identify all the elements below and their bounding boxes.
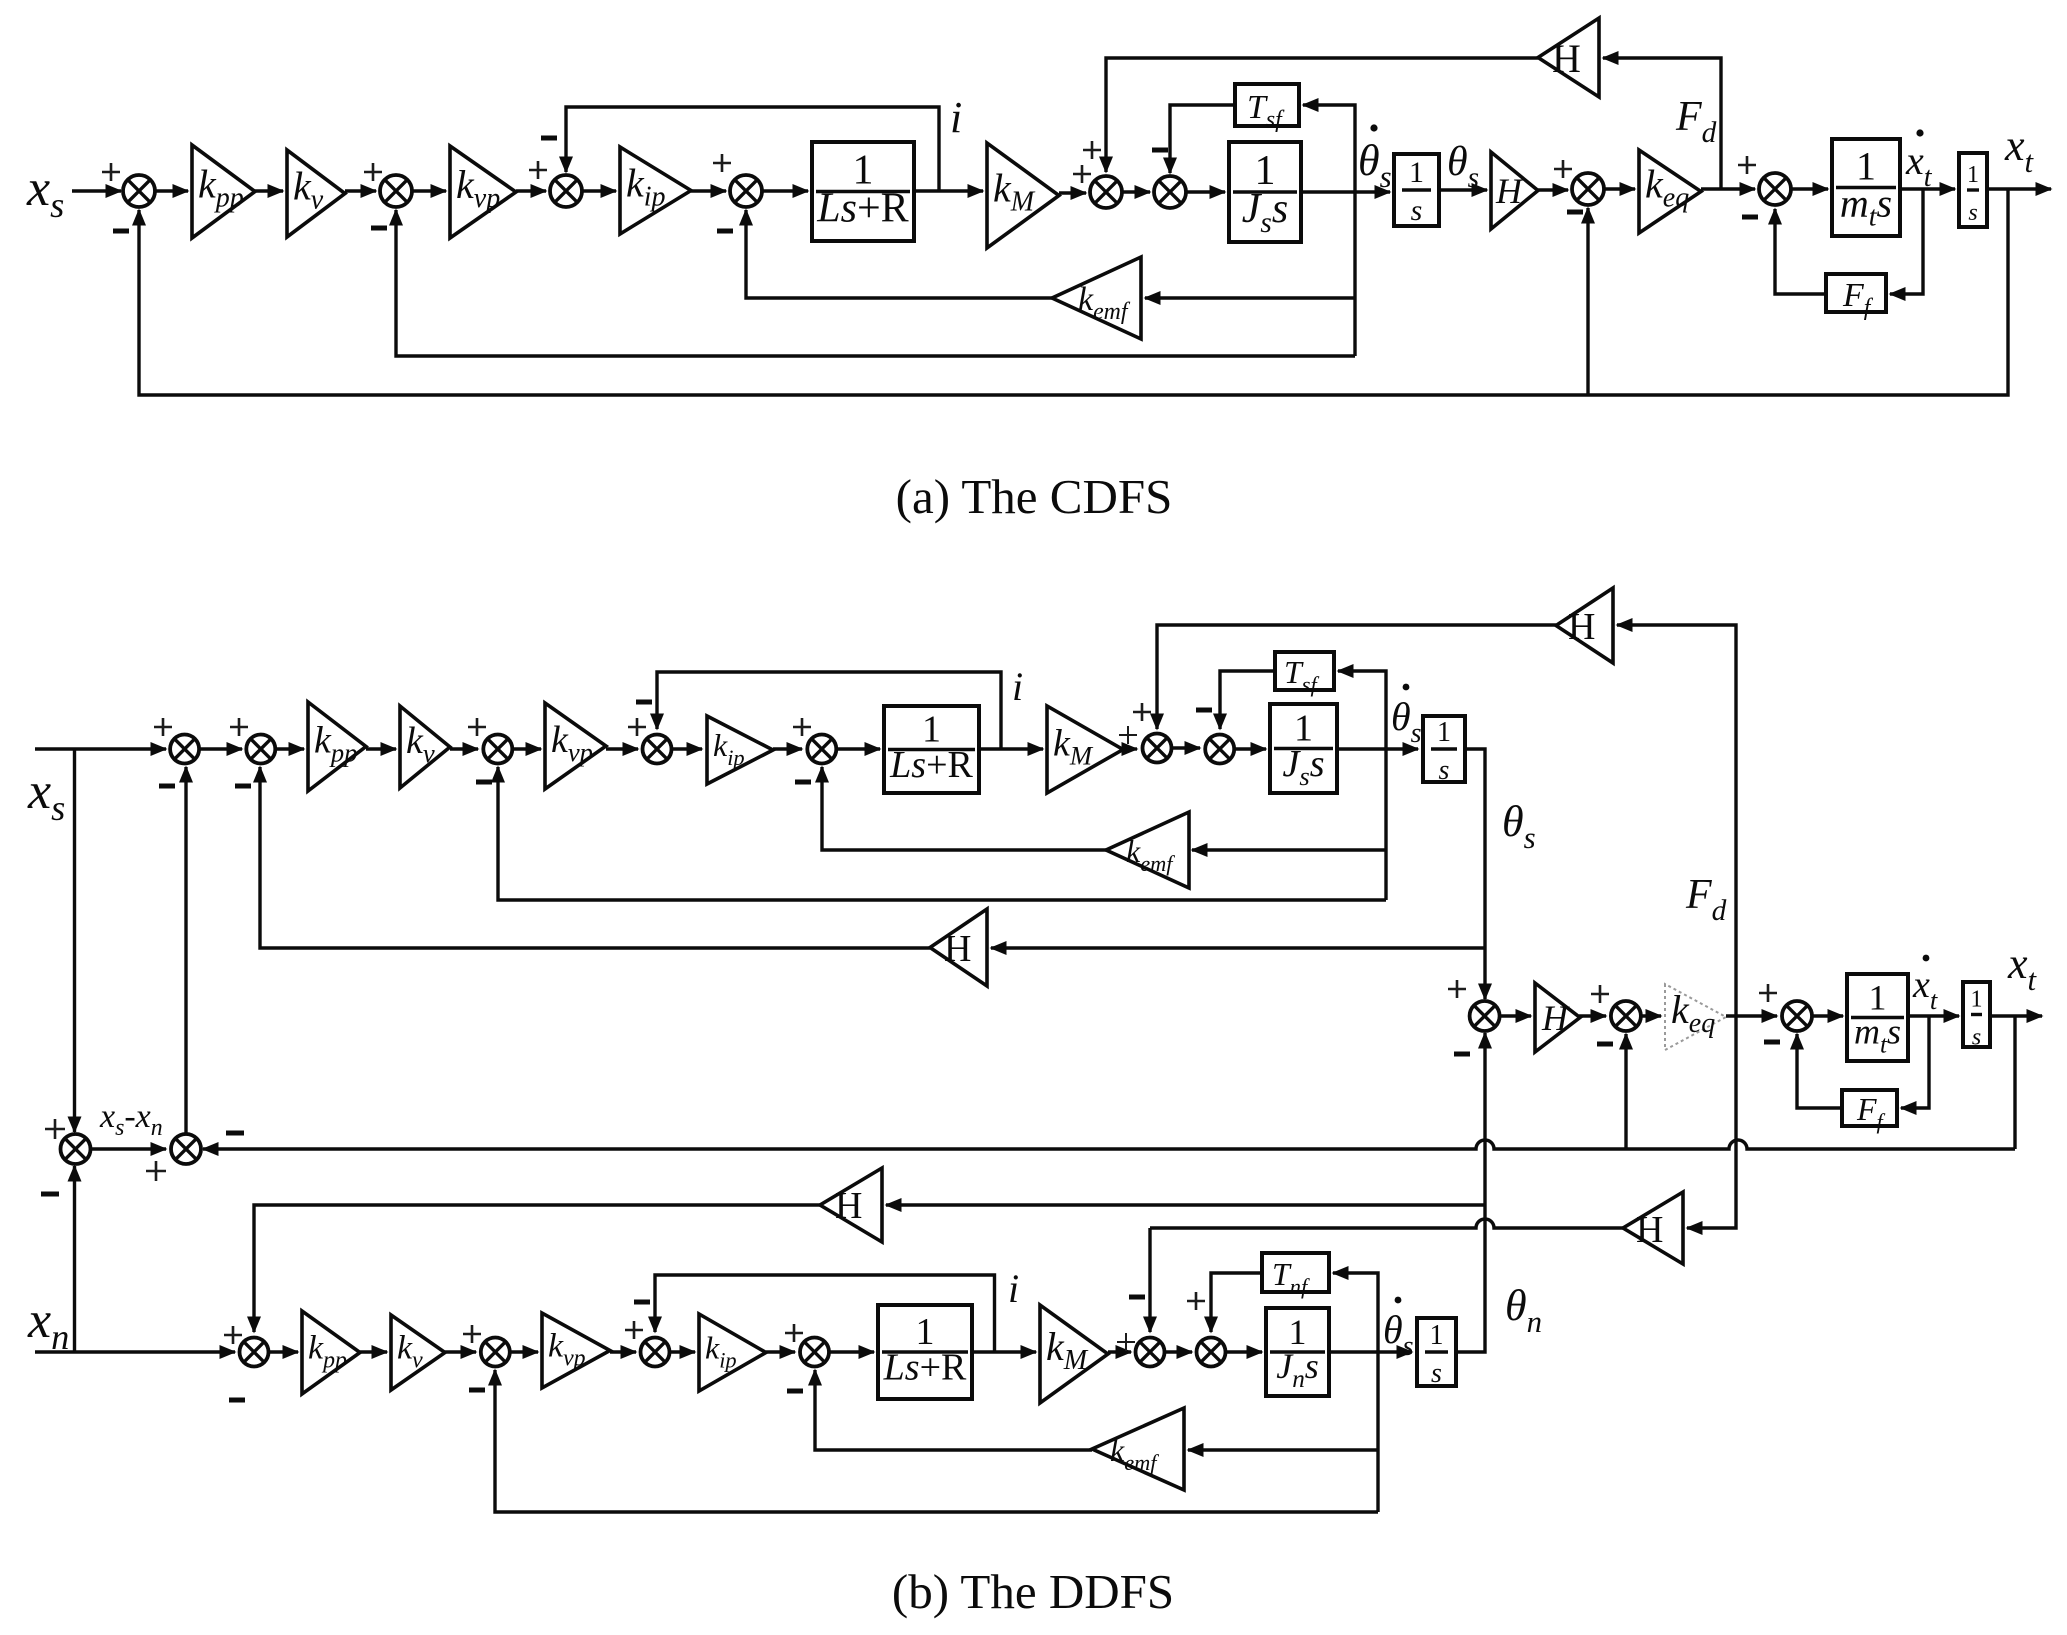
wire LsR to kM (b) (979, 742, 1045, 756)
wire Ff out to C3 (b) (1790, 1033, 1842, 1109)
plus at C1 (1448, 980, 1466, 998)
wire x_s input (b) (35, 742, 168, 756)
minus at C1 (1454, 1052, 1470, 1057)
svg-text:H: H (1552, 36, 1581, 81)
gain H mid (b s-chain) (930, 909, 987, 986)
plus at B6 (793, 718, 811, 736)
plus at A5 left (1073, 165, 1091, 183)
wire kpp to kv (255, 184, 285, 198)
wire kip to BN6 (766, 1345, 797, 1359)
gain kv (a) (287, 150, 345, 237)
wire Fd vertical (b) (1616, 618, 1737, 1016)
svg-text:1: 1 (1967, 162, 1979, 188)
minus at A2 (371, 226, 387, 231)
svg-text:Ls+R: Ls+R (889, 744, 973, 786)
svg-text:xt: xt (2007, 939, 2038, 997)
wire output (a) (1987, 182, 2053, 196)
svg-text:xt: xt (1905, 138, 1933, 193)
wire kemf feed (n) (1187, 1443, 1379, 1457)
block 1/s (a) (1394, 154, 1439, 227)
wire BN4 to kip (n) (670, 1345, 697, 1359)
wire kemf out to BN6 (808, 1369, 1092, 1451)
wire keq to sum A8 (1701, 182, 1757, 196)
plus at L1 (45, 1119, 65, 1139)
minus at BN7 top (1129, 1295, 1145, 1300)
wire kM to B7 (1122, 742, 1139, 756)
gain H coupling (b) (1535, 983, 1580, 1052)
wire xt branch up to C2 (b) (1619, 1033, 1633, 1150)
minus at A7 (1567, 210, 1583, 215)
wire Tsf out to B8 (1213, 671, 1275, 731)
wire kvp to BN4 (610, 1345, 638, 1359)
wire C2 to keq (b) (1641, 1009, 1663, 1023)
block Tsf (a) (1235, 84, 1299, 133)
wire theta feedback to A2 (a) (389, 209, 1355, 357)
gain kvp (b n-chain) (542, 1313, 610, 1388)
summing junction C3 (1782, 1001, 1812, 1031)
gain H mid (a) (1491, 152, 1538, 229)
wire A5 to sum A6 (1122, 185, 1152, 199)
wire C3 to mts (b) (1813, 1009, 1845, 1023)
plus at B7 left (1119, 726, 1137, 744)
gain kpp (b s-chain) (308, 702, 366, 791)
wire node i loop (n) (648, 1275, 995, 1352)
wire kM to sum A5 (1059, 186, 1088, 200)
summing junction L1 (xs-xn) (61, 1134, 91, 1164)
summing junction A5 (1090, 176, 1122, 208)
gain keq (b) (1665, 984, 1726, 1050)
svg-text:xs: xs (27, 763, 65, 828)
plus at BN7 left (1117, 1333, 1135, 1351)
wire kvp to sum A3 (516, 184, 548, 198)
gain kv (b s-chain) (400, 706, 450, 788)
wire kv to B3 (450, 742, 480, 756)
block 1/(Js s) (a) (1229, 142, 1301, 242)
summing junction BN1 (240, 1338, 269, 1367)
wire B7 to B8 (1172, 741, 1202, 755)
wire node i loop (a) (559, 107, 939, 191)
wire A6 to block Jss (a) (1186, 185, 1227, 199)
wire A7 to keq (1604, 182, 1637, 196)
gain H top (b) (1556, 588, 1613, 663)
svg-text:Ls+R: Ls+R (816, 186, 908, 232)
svg-text:i: i (950, 93, 962, 142)
wire A2 to kvp (412, 184, 448, 198)
wire mts to 1/s out (a) (1900, 182, 1957, 196)
plus at A2 (364, 163, 382, 181)
plus at A1 (102, 163, 120, 181)
summing junction BN6 (800, 1338, 829, 1367)
wire x_n tap up to L1 (68, 1165, 82, 1353)
plus at A7 (1554, 160, 1572, 178)
wire xt feedback to L2 (b) (202, 1140, 2016, 1156)
svg-text:xn: xn (27, 1292, 69, 1357)
minus at B4 top (636, 700, 652, 705)
wire Ff out to sum A8 (a) (1768, 208, 1826, 295)
wire Ff tap (b) (1900, 1016, 1930, 1115)
minus at BN6 (787, 1389, 803, 1394)
wire kv to sum A2 (345, 184, 378, 198)
wire A3 to kip (582, 184, 618, 198)
wire theta-dot vert down (n) (1376, 1352, 1379, 1512)
summing junction A3 (550, 175, 582, 207)
svg-text:xt: xt (1912, 964, 1938, 1015)
svg-text:Fd: Fd (1675, 94, 1717, 149)
svg-text:Fd: Fd (1685, 872, 1727, 927)
wire kemf out to sum A4 (a) (739, 209, 1052, 299)
minus at A8 (1742, 215, 1758, 220)
svg-text:1: 1 (1430, 1320, 1444, 1351)
block 1/(mt s) (b) (1847, 974, 1908, 1061)
wire kemf out to B6 (815, 766, 1106, 851)
block 1/(Js s) (b s-chain) (1270, 704, 1337, 793)
svg-text:keq: keq (1671, 987, 1715, 1039)
wire 1/s out to bc1 (b) (1465, 749, 1492, 1001)
block 1/s out (b) (1963, 982, 1990, 1051)
wire A4 to block LsR (a) (762, 184, 810, 198)
gain kM (a) (987, 143, 1059, 248)
summing junction L2 (171, 1134, 201, 1164)
block Ff (a) (1826, 274, 1886, 321)
svg-text:xs-xn: xs-xn (99, 1098, 163, 1141)
wire BN7 to BN8 (1165, 1345, 1194, 1359)
wire B3 to kvp (b) (512, 742, 543, 756)
svg-text:θs: θs (1502, 797, 1536, 855)
minus at A1 (113, 229, 129, 234)
wire H to sum A7 (1538, 183, 1570, 197)
minus at C3 (1764, 1040, 1780, 1045)
wire kvp to B4 (606, 742, 640, 756)
gain kpp (a) (192, 145, 255, 238)
wire BN1 to kpp (n) (268, 1345, 300, 1359)
wire H mid out to B2 (253, 766, 930, 949)
summing junction B3 (483, 735, 512, 764)
plus at BN1 (224, 1326, 242, 1344)
wire x_s tap down to L1 (68, 749, 82, 1134)
label x-dot t (a) (1905, 129, 1933, 193)
wire B1 to B2 (199, 742, 244, 756)
wire kemf feed (b s) (1191, 843, 1387, 857)
block Tsf (b) (1275, 652, 1334, 697)
label x-dot t (b) (1912, 955, 1938, 1015)
wire B6 to LsR (b) (836, 742, 882, 756)
plus at B7 top (1133, 703, 1151, 721)
wire Jss to 1/s (b) (1337, 742, 1420, 756)
wire BN3 to kvp (n) (510, 1345, 540, 1359)
wire B2 to kpp (b) (275, 742, 306, 756)
svg-text:(a) The CDFS: (a) The CDFS (896, 469, 1173, 524)
wire theta-dot vertical up to Tsf (a) (1302, 98, 1356, 192)
wire BN8 to Jns (1226, 1345, 1264, 1359)
label theta-dot s (b) (1391, 684, 1422, 749)
label theta-dot s (a) (1358, 124, 1392, 194)
minus at A6 top (1152, 148, 1168, 153)
minus at B8 top (1196, 708, 1212, 713)
block 1/(Ls+R) (a) (812, 142, 914, 241)
plus at C2 (1591, 985, 1609, 1003)
minus at B3 (476, 780, 492, 785)
minus at A3 top (541, 136, 557, 141)
svg-text:H: H (944, 928, 971, 970)
svg-text:i: i (1008, 1266, 1019, 1311)
gain H right (b) (1623, 1192, 1683, 1264)
svg-text:H: H (835, 1185, 862, 1227)
block 1/s (b s-chain) (1423, 716, 1465, 786)
wire A1 to kpp (155, 184, 190, 198)
wire H coupling to C2 (1579, 1009, 1608, 1023)
svg-text:i: i (1012, 664, 1023, 709)
wire node i loop (b s-chain) (650, 672, 1001, 749)
wire H right down to BN7 (1143, 1228, 1157, 1334)
wire Fd down to H right (b) (1686, 1016, 1737, 1235)
svg-text:s: s (1439, 755, 1450, 786)
svg-text:1: 1 (1409, 156, 1424, 189)
gain kip (b n-chain) (699, 1314, 766, 1391)
wire LsR to kM (n) (972, 1345, 1038, 1359)
summing junction B6 (807, 735, 836, 764)
minus at BN3 (469, 1388, 485, 1393)
svg-text:mts: mts (1854, 1011, 1901, 1058)
minus at B1 (159, 784, 175, 789)
plus at BN8 top (1187, 1292, 1205, 1310)
wire H right out (1150, 1219, 1623, 1228)
wire Jns to 1/s (n) (1329, 1345, 1414, 1359)
summing junction BN4 (641, 1338, 670, 1367)
svg-text:θn: θn (1505, 1281, 1542, 1339)
summing junction BN3 (481, 1338, 510, 1367)
summing junction B2 (246, 735, 275, 764)
wire H top out to B7 (b) (1150, 625, 1556, 731)
gain H left (b) (820, 1168, 882, 1242)
svg-text:s: s (1968, 200, 1977, 226)
wire theta-dot vert down (b s) (1384, 749, 1387, 900)
plus at C3 (1759, 984, 1777, 1002)
wire H left out to BN1 (247, 1205, 820, 1334)
summing junction A8 (1759, 173, 1791, 205)
block Ff (b) (1842, 1090, 1897, 1134)
svg-text:1: 1 (1437, 717, 1451, 748)
summing junction B1 (170, 735, 199, 764)
wire Jss to 1/s (a) (1301, 185, 1392, 199)
wire B8 to Jss (b) (1234, 742, 1268, 756)
wire H top out to sum A5 (a) (1099, 58, 1538, 174)
summing junction BN8 (1197, 1338, 1226, 1367)
wire velocity feedback to BN3 (488, 1369, 1378, 1513)
wire H mid input (b s) (990, 941, 1486, 955)
svg-text:H: H (1568, 606, 1595, 648)
block 1/(Ls+R) (b s-chain) (884, 706, 979, 793)
summing junction A4 (730, 175, 762, 207)
wire x_s to sum A1 (72, 184, 123, 198)
plus at B1 (154, 718, 172, 736)
plus at A8 (1738, 156, 1756, 174)
plus at BN4 (625, 1321, 643, 1339)
minus at A4 (717, 229, 733, 234)
gain kemf (b s-chain) (1106, 812, 1189, 888)
svg-text:θs: θs (1391, 694, 1422, 749)
gain H top (a) (1538, 18, 1599, 97)
minus at BN1 (229, 1398, 245, 1403)
block 1/(Jn s) (b n-chain) (1266, 1308, 1329, 1396)
wire BN6 to LsR (n) (829, 1345, 876, 1359)
minus at B6 (795, 780, 811, 785)
gain kM (b n-chain) (1040, 1305, 1108, 1403)
svg-text:xs: xs (26, 160, 64, 225)
gain kip (a) (620, 147, 691, 234)
plus at A5 top (1083, 141, 1101, 159)
label theta-dot n (1383, 1297, 1414, 1362)
gain kip (b s-chain) (707, 716, 773, 784)
plus at A3 (529, 161, 547, 179)
minus at L2 (226, 1131, 244, 1136)
svg-text:xt: xt (2004, 121, 2035, 179)
block Tnf (b) (1262, 1253, 1329, 1299)
wire Tsf out to sum A6 (a) (1163, 105, 1235, 175)
plus at B2 (230, 718, 248, 736)
svg-text:kv: kv (406, 720, 435, 768)
wire keq to C3 (b) (1726, 1009, 1779, 1023)
gain kv (b n-chain) (391, 1315, 445, 1390)
wire kpp to kv (b) (366, 742, 398, 756)
summing junction C2 (1611, 1001, 1641, 1031)
svg-text:Ls+R: Ls+R (883, 1346, 967, 1388)
svg-text:kv: kv (293, 164, 324, 216)
wire velocity feedback to B3 (b) (491, 766, 1386, 901)
svg-text:H: H (1636, 1209, 1663, 1251)
wire xt feedback vertical (b) (2013, 1016, 2016, 1149)
wire Ff tap (a) (1889, 189, 1924, 301)
gain kemf (a) (1052, 257, 1141, 339)
wire theta-dot vert up to Tnf (1332, 1266, 1379, 1352)
svg-text:s: s (1972, 1025, 1981, 1051)
summing junction C1 (1470, 1001, 1500, 1031)
wire C1 to H coupling (1500, 1009, 1533, 1023)
plus at A4 (713, 154, 731, 172)
gain kpp (b n-chain) (302, 1311, 360, 1394)
gain kvp (b s-chain) (545, 703, 606, 789)
svg-text:s: s (1411, 194, 1423, 227)
wire kemf feed (a) (1144, 291, 1356, 305)
wire theta_n tap to H left (b) (885, 1198, 1486, 1212)
svg-text:1: 1 (1971, 987, 1983, 1013)
wire B4 to kip (b) (672, 742, 704, 756)
block 1/s (b n-chain) (1417, 1318, 1456, 1389)
wire theta-dot vertical down (a) (1353, 192, 1356, 356)
wire L2 up to B1 (179, 766, 193, 1134)
wire Fd vertical (a) (1602, 51, 1722, 189)
wire x_n input (35, 1345, 237, 1359)
wire kip to B6 (773, 742, 804, 756)
summing junction A2 (380, 175, 412, 207)
block 1/(mt s) (a) (1832, 139, 1900, 236)
svg-text:mts: mts (1840, 180, 1892, 232)
wire kip to sum A4 (691, 184, 728, 198)
minus at L1 (41, 1192, 59, 1197)
wire 1/s out up to C1 (n) (1456, 1032, 1492, 1353)
summing junction A1 (123, 175, 155, 207)
wire Tnf out to BN8 (1204, 1273, 1262, 1334)
gain kvp (a) (450, 146, 516, 238)
plus at BN6 (785, 1324, 803, 1342)
svg-text:H: H (1495, 171, 1524, 211)
gain kemf (b n-chain) (1092, 1408, 1184, 1490)
summing junction A6 (1154, 176, 1186, 208)
plus at B4 (628, 718, 646, 736)
summing junction B8 (1205, 735, 1234, 764)
minus at B2 (235, 784, 251, 789)
svg-text:H: H (1541, 998, 1570, 1038)
gain keq (a) (1639, 150, 1701, 233)
wire kv to BN3 (445, 1345, 478, 1359)
wire kpp to kv (n) (360, 1345, 389, 1359)
plus at BN3 (463, 1325, 481, 1343)
wire L1 to L2 (91, 1142, 168, 1156)
wire xt branch to A7 (a) (1581, 207, 1595, 396)
wire output (b) (1990, 1009, 2044, 1023)
summing junction B7 (1143, 734, 1172, 763)
summing junction A7 (1572, 173, 1604, 205)
svg-text:s: s (1431, 1358, 1442, 1389)
wire A8 to block mts (a) (1791, 182, 1830, 196)
wire theta-dot vert up to Tsf (b) (1337, 664, 1387, 749)
minus at C2 (1597, 1042, 1613, 1047)
block 1/s out (a) (1959, 153, 1987, 227)
plus at B3 (468, 718, 486, 736)
wire xt feedback (a) (132, 189, 2008, 395)
wire kM to BN7 (1108, 1345, 1133, 1359)
minus at BN4 top (634, 1300, 650, 1305)
svg-text:(b) The DDFS: (b) The DDFS (892, 1564, 1174, 1619)
block 1/(Ls+R) (b n-chain) (878, 1305, 972, 1399)
wire 1/s to H (a) (1439, 183, 1489, 197)
wire mts to 1/s (b) (1908, 1009, 1961, 1023)
plus at L2 (146, 1161, 166, 1181)
wire LsR to kM (a) (914, 184, 985, 198)
summing junction BN7 (1136, 1338, 1165, 1367)
summing junction B4 (643, 735, 672, 764)
gain kM (b s-chain) (1047, 706, 1123, 793)
